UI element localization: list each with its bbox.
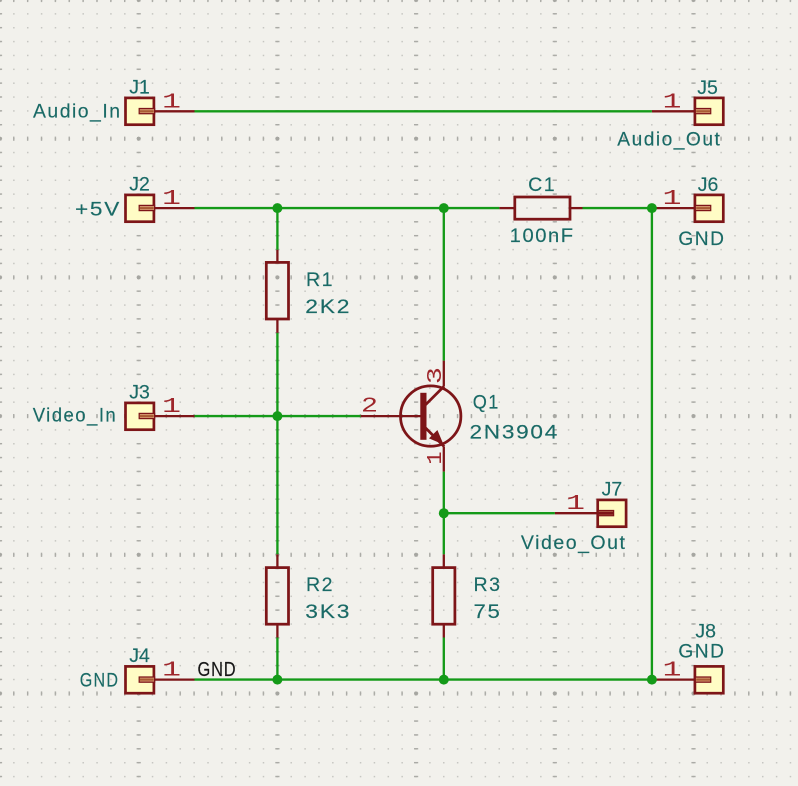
svg-text:100nF: 100nF — [510, 225, 575, 247]
svg-text:1: 1 — [425, 452, 448, 465]
wire +5V down to Q1 collector — [443, 208, 445, 361]
junction node base/R1/R2 — [272, 411, 282, 421]
svg-text:1: 1 — [162, 396, 181, 419]
svg-text:+5V: +5V — [75, 198, 121, 220]
wire R2 bottom to GND rail — [276, 638, 278, 680]
svg-text:Video_In: Video_In — [33, 404, 118, 426]
svg-text:R3: R3 — [474, 574, 502, 596]
connector J7 — [555, 500, 626, 527]
svg-text:1: 1 — [663, 188, 682, 211]
wire Q1 emitter down to R3 top — [443, 472, 445, 555]
svg-text:75: 75 — [474, 601, 502, 623]
svg-text:1: 1 — [162, 188, 181, 211]
wire +5V rail left segment — [195, 207, 500, 209]
wire Q1 emitter node to J7 Video_Out — [444, 512, 555, 514]
svg-text:J2: J2 — [129, 173, 150, 195]
wire GND bottom rail — [195, 678, 652, 680]
svg-text:2: 2 — [361, 396, 378, 419]
connector J1 — [126, 98, 195, 125]
junction node +5V/collector — [439, 203, 449, 213]
wire +5V rail right segment (C1 to J6) — [583, 207, 652, 209]
svg-text:1: 1 — [663, 91, 682, 114]
resistor R2 — [266, 554, 288, 637]
junction node +5V/J6 — [647, 203, 657, 213]
junction node GND/J8 — [647, 675, 657, 685]
svg-text:Audio_In: Audio_In — [33, 100, 122, 122]
svg-text:GND: GND — [678, 641, 725, 663]
svg-text:J5: J5 — [697, 77, 718, 99]
wire Video_In to Q1 base — [195, 415, 361, 417]
svg-text:J3: J3 — [129, 381, 150, 403]
svg-text:C1: C1 — [528, 174, 556, 196]
svg-text:3K3: 3K3 — [305, 601, 351, 623]
svg-text:Audio_Out: Audio_Out — [617, 129, 721, 151]
resistor R3 — [433, 554, 455, 637]
connector J6 — [652, 195, 723, 222]
wire J6 GND down to J8 (right vertical) — [651, 208, 653, 679]
junction node GND/R2 — [272, 675, 282, 685]
connector J8 — [652, 666, 723, 693]
svg-text:GND: GND — [198, 659, 237, 681]
wire R3 bottom to GND rail — [443, 638, 445, 680]
connector J5 — [652, 98, 723, 125]
svg-text:J8: J8 — [695, 620, 716, 642]
svg-text:1: 1 — [566, 493, 585, 516]
transistor Q1 — [361, 361, 461, 472]
svg-text:2K2: 2K2 — [305, 296, 351, 318]
wire R1 bottom to R2 top (base node) — [276, 333, 278, 554]
wire +5V down to R1 top — [276, 208, 278, 250]
resistor R1 — [266, 250, 288, 333]
wire Audio_In-Audio_Out (net audio) — [195, 110, 652, 112]
svg-text:J6: J6 — [698, 174, 719, 196]
connector J3 — [126, 403, 195, 430]
svg-text:2N3904: 2N3904 — [470, 421, 560, 443]
svg-text:J1: J1 — [129, 76, 150, 98]
connector J2 — [126, 195, 195, 222]
svg-text:R1: R1 — [306, 269, 334, 291]
svg-text:1: 1 — [162, 91, 181, 114]
junction node GND/R3 — [439, 675, 449, 685]
connector J4 — [126, 666, 195, 693]
svg-text:1: 1 — [162, 660, 181, 683]
svg-text:1: 1 — [663, 660, 682, 683]
svg-text:J7: J7 — [602, 479, 623, 501]
junction node +5V/R1 — [272, 203, 282, 213]
svg-text:GND: GND — [80, 670, 120, 692]
svg-text:3: 3 — [425, 367, 448, 384]
svg-text:Video_Out: Video_Out — [521, 532, 627, 554]
svg-text:GND: GND — [678, 228, 725, 250]
svg-text:Q1: Q1 — [473, 392, 500, 414]
junction node emitter/Video_Out — [439, 508, 449, 518]
capacitor C1 — [499, 197, 582, 219]
svg-text:R2: R2 — [306, 574, 334, 596]
svg-text:J4: J4 — [129, 645, 150, 667]
